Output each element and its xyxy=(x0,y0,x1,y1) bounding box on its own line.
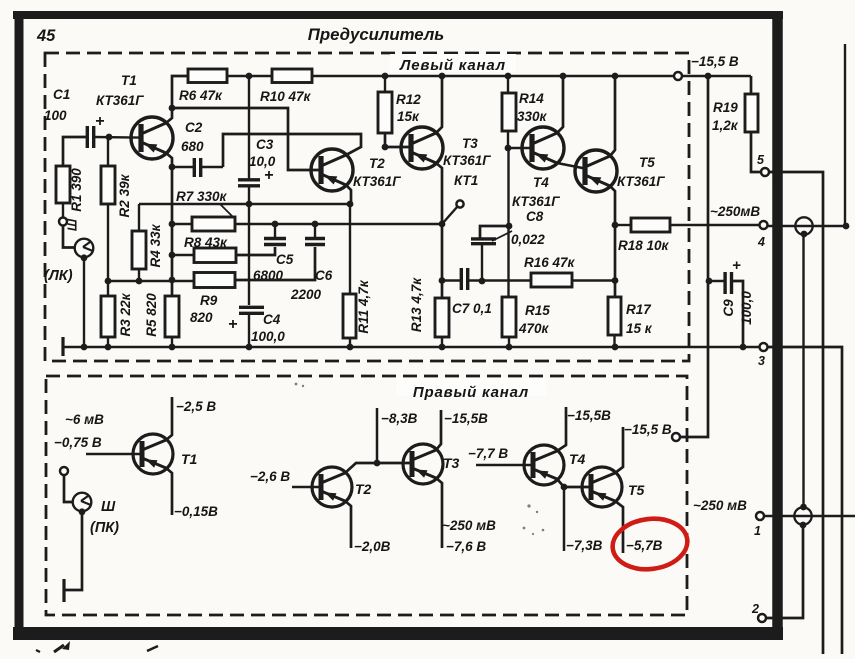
svg-text:R16 47к: R16 47к xyxy=(524,255,576,270)
wire: T4 collector to bus xyxy=(557,76,563,133)
test point switch КТ1 xyxy=(442,200,464,224)
shield symbol (lower) xyxy=(794,507,811,524)
svg-text:R14: R14 xyxy=(519,91,544,106)
svg-text:С4: С4 xyxy=(263,312,281,327)
svg-text:Предусилитель: Предусилитель xyxy=(308,25,444,44)
shield symbol (upper) xyxy=(795,217,812,234)
label T2 КТ361Г xyxy=(353,156,401,189)
svg-text:680: 680 xyxy=(181,139,204,154)
svg-text:Т1: Т1 xyxy=(181,451,198,467)
resistor R9 xyxy=(194,247,315,288)
output terminal 1 xyxy=(693,498,764,538)
wire: T1 collector up to R6 xyxy=(166,76,188,123)
svg-text:−15,5В: −15,5В xyxy=(444,411,488,426)
svg-text:470к: 470к xyxy=(518,321,550,336)
wire: T3 emitter to R13 xyxy=(436,163,442,298)
wire: T2r collector to T3r base xyxy=(345,463,412,473)
svg-text:R18 10к: R18 10к xyxy=(618,238,670,253)
svg-text:Т3: Т3 xyxy=(462,136,478,151)
capacitor C2 xyxy=(172,158,223,177)
capacitor C3 xyxy=(238,167,273,305)
svg-text:R10 47к: R10 47к xyxy=(260,89,312,104)
resistor R19 xyxy=(745,76,761,172)
resistor R8 xyxy=(172,247,275,263)
svg-text:(ПК): (ПК) xyxy=(90,520,119,536)
capacitor C6 xyxy=(305,224,325,245)
svg-text:R2 39к: R2 39к xyxy=(117,173,132,217)
svg-text:R6 47к: R6 47к xyxy=(179,88,223,103)
wire: T5 collector to bus xyxy=(610,76,615,156)
svg-text:5: 5 xyxy=(757,153,765,167)
svg-text:КТ361Г: КТ361Г xyxy=(512,194,560,209)
svg-text:КТ361Г: КТ361Г xyxy=(617,174,665,189)
svg-text:1,2к: 1,2к xyxy=(712,118,739,133)
output terminal 5 xyxy=(757,153,769,176)
svg-text:+: + xyxy=(264,167,273,184)
wire: T1 emitter / R-chain vertical xyxy=(166,153,172,296)
capacitor C4 xyxy=(228,307,264,347)
svg-text:С1: С1 xyxy=(53,87,70,102)
label C8 0,022 xyxy=(492,209,545,247)
svg-text:10,0: 10,0 xyxy=(249,154,276,169)
svg-text:15 к: 15 к xyxy=(626,321,653,336)
svg-text:+: + xyxy=(228,316,237,333)
wire: jack down to end bar xyxy=(64,513,82,590)
svg-text:+: + xyxy=(732,257,741,274)
wire: T1r emitter stub xyxy=(166,468,172,515)
ground rail xyxy=(63,346,760,349)
capacitor C5 xyxy=(264,224,286,245)
svg-text:Т5: Т5 xyxy=(628,482,645,498)
svg-text:−15,5В: −15,5В xyxy=(567,408,611,423)
transistor T2 xyxy=(311,149,353,191)
transistor T3 xyxy=(401,127,443,169)
resistor R12 xyxy=(378,76,411,147)
svg-text:1: 1 xyxy=(754,524,761,538)
resistor R16 xyxy=(531,273,615,287)
transistor T5 (right channel) xyxy=(582,467,622,507)
connector jack Ш (ЛК) xyxy=(66,218,94,261)
svg-text:R3 22к: R3 22к xyxy=(118,292,133,336)
svg-text:−5,7В: −5,7В xyxy=(626,538,663,553)
label T4 КТ361Г xyxy=(512,175,560,209)
transistor T4 xyxy=(522,127,564,169)
svg-text:~6 мВ: ~6 мВ xyxy=(65,412,104,427)
label R15 470к xyxy=(518,303,550,336)
svg-text:2: 2 xyxy=(751,602,759,616)
capacitor C7 xyxy=(460,268,463,290)
svg-text:−15,5 В: −15,5 В xyxy=(691,54,739,69)
wire: T2 emitter down xyxy=(346,185,351,204)
svg-text:−2,0В: −2,0В xyxy=(354,539,391,554)
transistor T2 (right channel) xyxy=(312,467,352,507)
svg-text:100,0: 100,0 xyxy=(739,291,754,325)
svg-text:R12: R12 xyxy=(396,92,421,107)
junction dots right channel xyxy=(374,460,568,491)
label C5 6800 xyxy=(253,252,294,283)
label R9 820 xyxy=(190,293,218,325)
svg-text:КТ361Г: КТ361Г xyxy=(96,93,144,108)
svg-text:Т2: Т2 xyxy=(355,481,372,497)
transistor T1 (right channel) xyxy=(133,434,173,474)
wire: T3 collector to bus xyxy=(436,76,442,133)
svg-text:−8,3В: −8,3В xyxy=(381,411,418,426)
resistor R10 xyxy=(272,69,312,83)
resistor R2 xyxy=(101,137,115,296)
wire: R6 to R10 xyxy=(227,75,272,78)
svg-text:15к: 15к xyxy=(397,109,420,124)
svg-text:С7 0,1: С7 0,1 xyxy=(452,301,492,316)
svg-text:R8 43к: R8 43к xyxy=(184,235,228,250)
svg-text:С8: С8 xyxy=(526,209,544,224)
label C1 100 xyxy=(44,87,104,130)
red highlight ellipse xyxy=(610,515,691,574)
svg-text:Правый канал: Правый канал xyxy=(413,384,529,401)
right channel dashed box xyxy=(46,376,687,615)
wire: T4r base stub xyxy=(476,464,533,467)
resistor R13 xyxy=(435,298,449,347)
wire: T2r base stub xyxy=(292,486,321,489)
svg-text:Т4: Т4 xyxy=(569,451,586,467)
svg-text:+: + xyxy=(95,113,104,130)
svg-text:С2: С2 xyxy=(185,120,203,135)
svg-text:100,0: 100,0 xyxy=(251,329,285,344)
input terminal (left) xyxy=(59,218,67,226)
wire: T2r emitter stub xyxy=(345,501,351,548)
svg-text:Т1: Т1 xyxy=(121,73,137,88)
svg-text:−15,5 В: −15,5 В xyxy=(624,422,672,437)
svg-text:R4 33к: R4 33к xyxy=(148,223,163,267)
wire: shield link xyxy=(802,234,804,507)
bus connector circle xyxy=(674,72,682,80)
svg-text:КТ1: КТ1 xyxy=(454,173,478,188)
wire: output 4 / shield feed xyxy=(767,225,846,227)
svg-text:Т4: Т4 xyxy=(533,175,549,190)
wire: T5 emitter / R17 vertical xyxy=(610,186,615,297)
svg-text:R13 4,7к: R13 4,7к xyxy=(409,277,424,332)
label R12 15к xyxy=(396,92,421,124)
svg-text:Т5: Т5 xyxy=(639,155,655,170)
left channel dashed box xyxy=(45,53,689,361)
output terminal 4 xyxy=(710,204,768,249)
svg-text:−7,7 В: −7,7 В xyxy=(468,446,508,461)
resistor R11 xyxy=(343,204,356,347)
svg-text:−2,5 В: −2,5 В xyxy=(176,399,216,414)
svg-text:R9: R9 xyxy=(200,293,218,308)
svg-text:820: 820 xyxy=(190,310,213,325)
svg-text:330к: 330к xyxy=(517,109,548,124)
supply terminal -15,5V (right channel) xyxy=(672,433,680,441)
transistor T4 (right channel) xyxy=(524,445,564,485)
svg-text:Т2: Т2 xyxy=(369,156,385,171)
svg-text:45: 45 xyxy=(36,27,56,45)
svg-text:R1 390: R1 390 xyxy=(69,168,84,212)
svg-text:−7,3В: −7,3В xyxy=(566,538,603,553)
svg-text:−0,75 В: −0,75 В xyxy=(54,435,102,450)
resistor R7 xyxy=(172,217,235,231)
wire: terminal to jack (right) xyxy=(64,475,73,502)
label Правый канал xyxy=(396,378,546,401)
wire: C3/C4 branch vertical xyxy=(248,76,250,180)
scan smudges xyxy=(295,383,545,536)
transistor T1 xyxy=(131,117,173,159)
wire: -15.5V feed down right side xyxy=(680,76,708,437)
svg-text:С6: С6 xyxy=(315,268,333,283)
label C3 10,0 xyxy=(249,137,276,169)
resistor R18 xyxy=(615,218,760,232)
wire: T3r emitter stub xyxy=(436,478,442,548)
resistor R4 xyxy=(132,204,146,281)
label R14 330к xyxy=(517,91,548,124)
svg-text:R19: R19 xyxy=(713,100,738,115)
wire: T5r emitter stub xyxy=(615,501,623,553)
resistor R15 xyxy=(502,297,516,347)
svg-text:Ш: Ш xyxy=(101,499,116,515)
svg-text:Ш: Ш xyxy=(66,218,80,231)
svg-text:R17: R17 xyxy=(626,302,652,317)
wire: T1r collector stub xyxy=(166,397,172,440)
label C4 100,0 xyxy=(251,312,285,344)
wire: T4 base / R15 vertical xyxy=(508,147,532,149)
label R7 330к xyxy=(176,189,233,217)
wire: T4 emitter to T5 base xyxy=(557,163,585,169)
wire: R7 to T3 emitter rail y224 xyxy=(235,223,442,225)
svg-text:КТ361Г: КТ361Г xyxy=(353,174,401,189)
wire: T4r emitter to T5r base xyxy=(557,479,591,487)
transistor T3 (right channel) xyxy=(403,444,443,484)
svg-text:4: 4 xyxy=(757,235,765,249)
wire: C7/R16 rail y281 xyxy=(442,279,461,281)
wire: -15.5V top bus xyxy=(312,75,751,78)
wire: terminal to jack xyxy=(63,226,75,248)
wire: T1 collector to T2 base xyxy=(172,108,321,170)
svg-text:Т3: Т3 xyxy=(443,455,460,471)
capacitor C9 xyxy=(708,257,743,347)
scan marks below frame xyxy=(36,641,158,652)
svg-text:С9: С9 xyxy=(721,299,736,317)
label R17 15 к xyxy=(626,302,653,336)
capacitor C1 xyxy=(87,126,141,148)
resistor R14 xyxy=(502,76,516,148)
svg-text:−0,15В: −0,15В xyxy=(174,504,218,519)
svg-text:~250 мВ: ~250 мВ xyxy=(442,518,496,533)
output terminal 3 xyxy=(758,343,768,368)
wire: output 1 xyxy=(764,515,855,517)
resistor R17 xyxy=(608,297,621,347)
output terminal 2 xyxy=(751,602,766,622)
wire: input to C1 xyxy=(63,137,87,166)
svg-text:Левый канал: Левый канал xyxy=(399,57,506,74)
resistor R6 xyxy=(188,69,227,83)
margin junction dots xyxy=(800,223,850,529)
connector jack Ш (ПК) xyxy=(73,493,116,516)
svg-text:2200: 2200 xyxy=(290,287,322,302)
label T5 КТ361Г xyxy=(617,155,665,189)
wire: output 5 xyxy=(769,172,823,654)
svg-text:С5: С5 xyxy=(276,252,294,267)
svg-text:~250 мВ: ~250 мВ xyxy=(693,498,747,513)
svg-text:КТ361Г: КТ361Г xyxy=(443,153,491,168)
svg-text:(ЛК): (ЛК) xyxy=(44,268,73,284)
svg-text:−7,6 В: −7,6 В xyxy=(446,539,486,554)
label Левый канал xyxy=(390,54,516,74)
svg-text:0,022: 0,022 xyxy=(511,232,545,247)
resistor R5 xyxy=(165,296,179,347)
label T1 КТ361Г xyxy=(96,73,144,108)
svg-text:R11 4,7к: R11 4,7к xyxy=(356,279,371,333)
transistor T5 xyxy=(575,150,617,192)
resistor R1 xyxy=(56,166,70,218)
wire: jack to ground rail xyxy=(83,259,85,347)
label C2 680 xyxy=(181,120,204,154)
junction dots left channel xyxy=(81,73,747,351)
wire: output 3 xyxy=(767,347,842,654)
resistor R3 xyxy=(101,296,115,347)
svg-text:3: 3 xyxy=(758,354,765,368)
wire: C2 to T2 collector xyxy=(223,134,361,167)
input terminal (right) xyxy=(60,467,68,475)
svg-text:~250мВ: ~250мВ xyxy=(710,204,760,219)
svg-text:С3: С3 xyxy=(256,137,274,152)
wire: T5r collector stub xyxy=(615,427,623,473)
wire: emitter rail y204 xyxy=(139,203,351,205)
svg-text:R7 330к: R7 330к xyxy=(176,189,228,204)
label C6 2200 xyxy=(290,268,333,302)
capacitor C8 xyxy=(471,226,509,281)
svg-text:R5 820: R5 820 xyxy=(144,293,159,337)
svg-text:100: 100 xyxy=(44,108,67,123)
svg-text:−2,6 В: −2,6 В xyxy=(250,469,290,484)
wire: output 2 to shield xyxy=(766,525,803,618)
wire: T3r collector stub xyxy=(436,410,441,450)
svg-text:R15: R15 xyxy=(525,303,550,318)
label C9 100,0 xyxy=(721,291,754,325)
label R19 1,2к xyxy=(712,100,739,133)
label T3 КТ361Г КТ1 xyxy=(443,136,491,188)
wire: R2/R3/R4 junction rail xyxy=(108,280,194,282)
wire: T4r collector stub xyxy=(557,407,566,451)
wire: T1r base stub xyxy=(86,453,142,456)
